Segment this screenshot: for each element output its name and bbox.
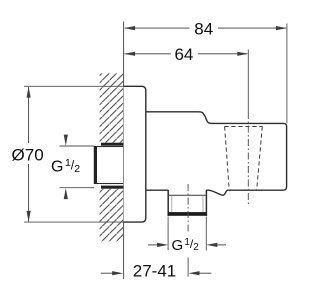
svg-text:27-41: 27-41	[133, 261, 176, 280]
svg-text:Ø70: Ø70	[12, 146, 44, 165]
hand shower cone hidden right edge	[257, 127, 263, 190]
wall hatch lower band	[100, 189, 124, 242]
in-wall socket lower band	[101, 186, 124, 189]
body bottom edge left segment	[146, 189, 168, 191]
elbow body with shower holder outline	[146, 112, 287, 195]
dimension diameter 70	[12, 86, 124, 222]
outlet centerline	[187, 184, 189, 233]
hand shower cone hidden top edge	[224, 126, 262, 128]
dimension G1/2 inlet	[51, 135, 94, 200]
in-wall socket upper band	[101, 143, 124, 146]
outlet nut G1/2	[168, 190, 207, 216]
wall face line	[123, 22, 125, 280]
hand shower cone hidden left edge	[225, 127, 230, 189]
dimension 84	[124, 20, 287, 124]
wall hatch upper band	[100, 73, 124, 142]
svg-text:84: 84	[194, 20, 213, 39]
dimension 64	[124, 45, 248, 64]
wall flange escutcheon	[124, 86, 146, 222]
svg-text:64: 64	[174, 45, 193, 64]
G1/2 inlet nipple	[94, 146, 124, 184]
holder centerline + 64 extension	[247, 50, 249, 113]
dimension 27-41	[101, 261, 212, 280]
dimension G1/2 outlet	[148, 217, 226, 254]
